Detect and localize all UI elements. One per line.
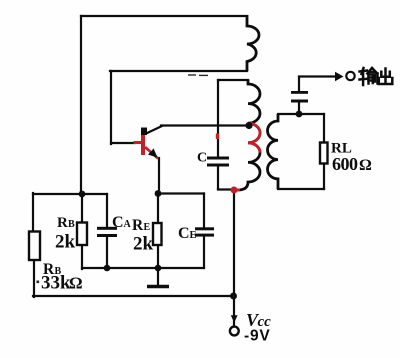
svg-text:33k: 33k — [41, 273, 71, 294]
svg-text:600: 600 — [332, 154, 358, 174]
svg-text:R: R — [57, 215, 68, 231]
svg-text:R: R — [132, 217, 144, 234]
svg-text:C: C — [112, 214, 124, 231]
svg-text:B: B — [68, 219, 75, 230]
svg-text:Ω: Ω — [69, 274, 83, 293]
svg-text:2k: 2k — [55, 232, 76, 253]
svg-text:C: C — [178, 225, 190, 242]
svg-text:-9V: -9V — [244, 328, 271, 345]
svg-text:2k: 2k — [133, 234, 154, 255]
svg-text:C: C — [197, 151, 207, 166]
svg-text:A: A — [124, 219, 132, 230]
svg-text:Ω: Ω — [359, 157, 372, 174]
svg-text:E: E — [144, 222, 151, 233]
svg-text:E: E — [190, 230, 197, 241]
